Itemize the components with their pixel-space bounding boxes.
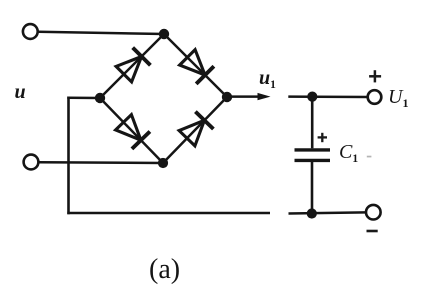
diode D3 bottom-left [116,115,150,149]
terminal: output minus [366,205,381,220]
node: bridge left junction [95,93,105,103]
wire: bridge arm top-right [164,34,227,97]
wire: bridge arm left-top [100,34,164,98]
label U1 (output voltage) [388,86,408,111]
wire: output arrow shaft [227,95,260,98]
wire: bridge arm left-bottom [100,98,163,163]
arrowhead u1 [258,93,271,100]
terminal: output plus [368,90,382,104]
plus sign capacitor polarity [318,133,327,142]
node: bridge right junction [222,92,232,102]
wire: top rail right segment [288,95,368,98]
label u (input voltage) [15,81,26,104]
node: capacitor bottom junction [307,208,317,218]
node: capacitor top junction [307,92,317,102]
wire: bottom rail right segment [289,212,367,213]
wire: bottom input to bottom node [39,161,163,164]
wire: top input to top node [38,32,164,34]
wire: left vertical down [67,97,70,215]
wire: bottom rail left segment [67,212,270,215]
node: bridge top junction [159,29,169,39]
wire: capacitor down to bottom junction [311,162,314,214]
diode D4 bottom-right [179,112,213,146]
label u1 (rectified voltage) [259,67,276,91]
capacitor C1 top plate [295,148,331,151]
wire: bridge arm bottom-right [163,97,227,163]
terminal: input top-left [23,24,38,39]
minus sign at output terminal [367,230,378,233]
scan artifact dash [367,156,372,158]
diode D1 top-left [116,48,150,82]
wire: junction down to capacitor [311,97,314,149]
caption (a) [149,254,180,286]
wire: left node stub [67,96,100,99]
label C1 (capacitor value) [339,141,358,165]
node: bridge bottom junction [158,158,168,168]
capacitor C1 bottom plate [295,159,331,162]
terminal: input bottom-left [24,155,39,170]
diode D2 top-right [180,50,214,84]
plus sign at output terminal [369,70,381,82]
